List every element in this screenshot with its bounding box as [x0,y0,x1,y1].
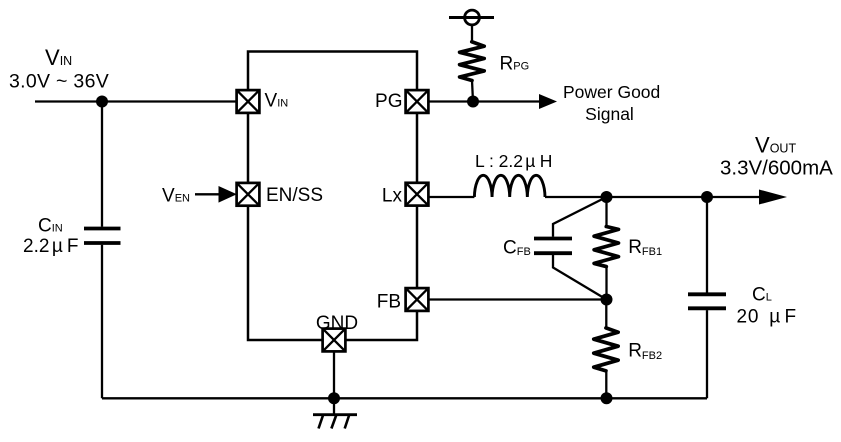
IC U1 buck converter body [248,52,417,341]
resistor RFB2 [594,300,618,399]
inductor L [474,175,545,197]
label Power Good Signal [563,82,660,124]
arrow VEN [219,186,237,203]
pin EN/SS [237,183,260,206]
svg-text:3.0V ~ 36V: 3.0V ~ 36V [9,70,109,92]
wire input to VIN pin [35,100,237,102]
capacitor CL [688,197,726,398]
svg-text:Signal: Signal [585,104,634,124]
wire supply to RPG [471,25,473,42]
svg-text:CIN: CIN [38,215,63,236]
wire VEN [195,193,221,195]
svg-text:VIN: VIN [265,91,289,112]
svg-text:EN/SS: EN/SS [266,185,323,206]
svg-text:CL: CL [752,284,772,305]
power supply symbol (pull-up rail) [449,10,494,25]
svg-text:PG: PG [375,91,402,112]
node GND junction [328,392,340,404]
pin FB [406,288,429,311]
wire inductor to output [545,196,761,198]
arrow VOUT [759,190,787,205]
pin VIN [237,90,260,113]
node Lx-out junction [601,191,613,203]
svg-text:VEN: VEN [162,185,190,206]
pin Lx [406,183,429,206]
wire PG to arrow [428,100,541,102]
ground [313,398,357,428]
capacitor CFB [534,197,607,300]
pin GND [323,329,346,352]
arrow Power Good [539,94,557,109]
svg-text:3.3V/600mA: 3.3V/600mA [720,156,833,179]
svg-text:Power Good: Power Good [563,82,660,102]
wire Lx to inductor [428,196,474,198]
wire GND pin to rail [333,351,335,398]
svg-text:2.2µF: 2.2µF [23,236,78,257]
svg-text:RFB2: RFB2 [628,341,662,363]
svg-text:RPG: RPG [500,54,530,75]
svg-text:CFB: CFB [503,238,531,259]
svg-text:GND: GND [316,313,358,334]
pin PG [406,90,429,113]
node FB junction [601,294,613,306]
svg-text:VIN: VIN [45,45,72,70]
svg-text:RFB1: RFB1 [628,237,662,258]
node RFB2 ground junction [601,392,613,404]
svg-text:Lx: Lx [382,185,403,206]
resistor RFB1 [594,197,618,300]
resistor RPG [460,42,485,102]
svg-text:VOUT: VOUT [755,133,796,158]
svg-text:FB: FB [377,292,401,313]
svg-text:20µF: 20µF [737,306,797,327]
wire FB to divider [428,298,606,300]
capacitor CIN [84,102,121,399]
svg-text:L : 2.2µH: L : 2.2µH [475,151,552,171]
wire ground rail [102,397,707,399]
node output junction [701,191,713,203]
node input junction [96,96,108,108]
node PG junction [467,96,479,108]
